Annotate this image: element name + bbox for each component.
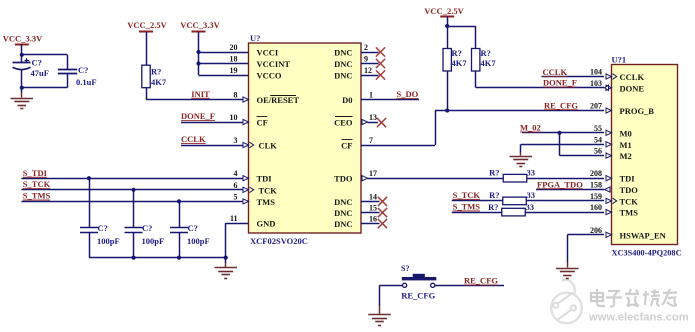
svg-text:VCC_2.5V: VCC_2.5V <box>127 20 167 30</box>
svg-text:11: 11 <box>230 214 238 223</box>
svg-text:VCC_3.3V: VCC_3.3V <box>3 34 43 44</box>
svg-text:TDO: TDO <box>334 174 353 184</box>
svg-text:TMS: TMS <box>257 197 276 207</box>
svg-text:GND: GND <box>257 219 276 229</box>
svg-text:TDI: TDI <box>620 174 636 184</box>
svg-text:DONE: DONE <box>620 83 645 93</box>
svg-text:R?: R? <box>481 48 491 58</box>
svg-text:47uF: 47uF <box>31 68 49 78</box>
svg-text:DNC: DNC <box>334 219 352 229</box>
svg-text:S_TDI: S_TDI <box>23 168 48 178</box>
svg-text:100pF: 100pF <box>187 236 210 246</box>
svg-text:XCF02SVO20C: XCF02SVO20C <box>250 236 308 246</box>
svg-text:CF: CF <box>257 118 268 128</box>
svg-text:C?: C? <box>188 223 198 233</box>
svg-text:33: 33 <box>526 202 535 212</box>
svg-text:20: 20 <box>230 43 238 52</box>
svg-text:R?: R? <box>452 48 462 58</box>
svg-text:VCCI: VCCI <box>257 48 279 58</box>
svg-text:CEO: CEO <box>334 118 353 128</box>
svg-text:S_DO: S_DO <box>397 89 419 99</box>
svg-text:4K7: 4K7 <box>452 58 468 68</box>
svg-text:U?: U? <box>250 33 260 43</box>
svg-text:16: 16 <box>369 215 377 224</box>
svg-text:CCLK: CCLK <box>543 67 568 77</box>
svg-text:CF: CF <box>341 141 352 151</box>
svg-text:6: 6 <box>234 181 238 190</box>
svg-text:DNC: DNC <box>334 48 352 58</box>
svg-text:DONE_F: DONE_F <box>543 78 577 88</box>
svg-text:VCCINT: VCCINT <box>257 59 291 69</box>
svg-text:R?: R? <box>488 202 498 212</box>
svg-text:5: 5 <box>234 192 238 201</box>
svg-text:56: 56 <box>594 147 602 156</box>
svg-text:55: 55 <box>594 124 602 133</box>
svg-text:DNC: DNC <box>334 208 352 218</box>
svg-text:M_02: M_02 <box>520 123 541 133</box>
svg-text:OE/RESET: OE/RESET <box>257 95 300 105</box>
svg-text:CLK: CLK <box>259 141 278 151</box>
svg-text:C?: C? <box>142 223 152 233</box>
svg-text:M1: M1 <box>620 140 632 150</box>
svg-text:U?1: U?1 <box>612 54 627 64</box>
svg-text:12: 12 <box>364 66 372 75</box>
svg-text:DONE_F: DONE_F <box>181 111 215 121</box>
svg-text:54: 54 <box>594 135 602 144</box>
svg-text:S_TCK: S_TCK <box>23 179 51 189</box>
svg-text:VCC_3.3V: VCC_3.3V <box>180 20 220 30</box>
svg-text:4K7: 4K7 <box>151 77 167 87</box>
svg-text:VCCO: VCCO <box>257 71 282 81</box>
svg-text:INIT: INIT <box>191 89 210 99</box>
svg-text:RE_CFG: RE_CFG <box>464 276 498 286</box>
svg-text:DNC: DNC <box>334 59 352 69</box>
svg-text:206: 206 <box>590 226 602 235</box>
svg-text:17: 17 <box>369 169 377 178</box>
svg-text:160: 160 <box>590 203 602 212</box>
svg-text:R?: R? <box>489 190 499 200</box>
svg-text:S_TMS: S_TMS <box>453 202 481 212</box>
svg-text:3: 3 <box>234 136 238 145</box>
svg-text:PROG_B: PROG_B <box>620 106 655 116</box>
svg-text:4: 4 <box>234 169 238 178</box>
svg-text:33: 33 <box>527 167 536 177</box>
svg-text:S_TCK: S_TCK <box>453 190 481 200</box>
svg-text:www.elecfans.com: www.elecfans.com <box>588 312 689 324</box>
svg-text:VCC_2.5V: VCC_2.5V <box>424 6 464 16</box>
svg-text:RE_CFG: RE_CFG <box>401 290 435 300</box>
svg-text:10: 10 <box>230 113 238 122</box>
svg-text:15: 15 <box>369 204 377 213</box>
svg-text:S?: S? <box>401 264 409 273</box>
svg-text:FPGA_TDO: FPGA_TDO <box>537 179 583 189</box>
svg-text:TDI: TDI <box>257 174 273 184</box>
svg-text:207: 207 <box>590 102 602 111</box>
svg-text:XC3S400-4PQ208C: XC3S400-4PQ208C <box>612 249 682 258</box>
svg-text:4K7: 4K7 <box>481 58 497 68</box>
svg-text:C?: C? <box>98 223 108 233</box>
svg-text:2: 2 <box>364 43 368 52</box>
svg-text:19: 19 <box>230 66 238 75</box>
svg-text:100pF: 100pF <box>142 236 165 246</box>
svg-text:158: 158 <box>590 181 602 190</box>
svg-text:TMS: TMS <box>620 208 639 218</box>
svg-text:13: 13 <box>369 113 377 122</box>
svg-text:TCK: TCK <box>259 185 278 195</box>
svg-text:100pF: 100pF <box>97 236 120 246</box>
svg-text:M0: M0 <box>620 128 632 138</box>
svg-text:208: 208 <box>590 169 602 178</box>
svg-text:7: 7 <box>369 136 373 145</box>
svg-text:33: 33 <box>527 190 536 200</box>
svg-text:C?: C? <box>78 65 88 75</box>
svg-text:103: 103 <box>590 79 602 88</box>
svg-text:14: 14 <box>369 192 377 201</box>
svg-text:DNC: DNC <box>334 197 352 207</box>
svg-text:TCK: TCK <box>620 196 639 206</box>
svg-text:R?: R? <box>489 167 499 177</box>
svg-text:C?: C? <box>32 57 42 67</box>
svg-text:DNC: DNC <box>334 71 352 81</box>
svg-text:9: 9 <box>364 55 368 64</box>
svg-text:M2: M2 <box>620 151 632 161</box>
svg-text:D0: D0 <box>342 95 352 105</box>
svg-text:8: 8 <box>234 91 238 100</box>
svg-text:104: 104 <box>590 68 602 77</box>
svg-text:CCLK: CCLK <box>620 72 645 82</box>
svg-text:18: 18 <box>230 55 238 64</box>
svg-text:159: 159 <box>590 192 602 201</box>
svg-text:HSWAP_EN: HSWAP_EN <box>620 230 667 240</box>
svg-text:1: 1 <box>369 91 373 100</box>
svg-text:0.1uF: 0.1uF <box>76 77 97 87</box>
svg-text:RE_CFG: RE_CFG <box>544 100 578 110</box>
svg-text:S_TMS: S_TMS <box>23 191 51 201</box>
svg-text:R?: R? <box>151 67 161 77</box>
svg-text:CCLK: CCLK <box>181 134 206 144</box>
svg-text:TDO: TDO <box>620 185 639 195</box>
